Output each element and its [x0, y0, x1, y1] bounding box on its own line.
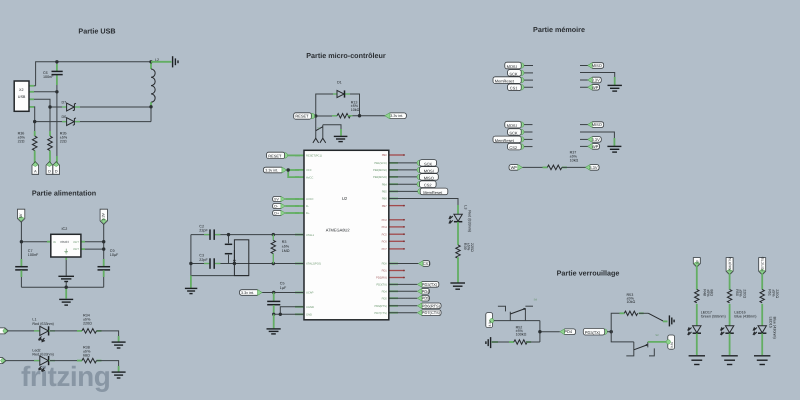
svg-text:RESET(PC1): RESET(PC1): [306, 155, 322, 158]
svg-text:SCK: SCK: [509, 130, 517, 135]
wire X2 pin2 to C6 vertical: [29, 91, 57, 93]
group 2 left stubs: [524, 125, 533, 147]
wire S1 to ground: [340, 129, 342, 136]
wire VCC/AVCC: [287, 170, 299, 177]
wire ground to R52: [492, 341, 498, 343]
label 3.3v int (VCC): [263, 167, 285, 173]
junction node OUT2: [102, 247, 105, 250]
label D-: [273, 204, 284, 209]
label CS1: [419, 261, 430, 267]
svg-text:3.3V: 3.3V: [589, 165, 597, 170]
label PD3(TX): [418, 282, 439, 288]
svg-text:22Ω: 22Ω: [18, 140, 25, 144]
svg-text:100kΩ: 100kΩ: [516, 333, 527, 337]
ground R53 (pointing left): [668, 315, 670, 326]
wire rail to R35: [49, 107, 51, 136]
svg-text:±5%: ±5%: [282, 244, 290, 248]
connector pin A: [34, 156, 36, 163]
wire IC2 GND down: [65, 257, 67, 276]
label RESET (reset circuit): [309, 113, 315, 119]
diode D6: [62, 121, 67, 123]
label 3.3v rotated (S4): [486, 313, 493, 328]
red stub PD2: [389, 277, 405, 279]
wire mem2 ground row: [580, 132, 614, 145]
svg-text:UVCC: UVCC: [306, 198, 314, 201]
junction node XTAL2 R3: [272, 262, 275, 265]
label PD3(TX) (verrouillage): [602, 329, 608, 335]
wire X2 pin1 to top rail: [29, 85, 36, 87]
red stub PC4: [389, 226, 405, 228]
svg-text:D: D: [48, 169, 51, 173]
svg-text:PD7(CTS): PD7(CTS): [374, 312, 386, 315]
red stub PB0: [389, 154, 405, 156]
label 5V (UVCC): [273, 197, 284, 202]
fritzing watermark: [21, 361, 110, 392]
junction node UGND: [279, 313, 282, 316]
svg-text:3.3V: 3.3V: [592, 78, 600, 83]
wire C7 to bottom: [20, 270, 22, 287]
svg-text:USB: USB: [18, 95, 26, 99]
wire IC2 OUT1: [81, 241, 104, 243]
left pin legs: [295, 155, 304, 314]
label SCK mem2: [518, 129, 524, 135]
ground S1: [334, 135, 348, 137]
svg-text:3.3v int.: 3.3v int.: [390, 114, 403, 118]
svg-text:78M33: 78M33: [60, 240, 70, 244]
svg-text:D-: D-: [306, 205, 309, 208]
label 3.3v rotated (S2): [668, 335, 675, 349]
label MISO mem2: [589, 122, 604, 128]
svg-text:10kΩ: 10kΩ: [627, 300, 636, 304]
wire UGND jog: [280, 307, 304, 315]
wire node to PD4: [540, 331, 560, 333]
wire R52 to node: [526, 341, 540, 343]
wires right pins to labels: [389, 163, 419, 313]
wire R38 to ground: [97, 361, 119, 371]
svg-text:68Ω: 68Ω: [83, 353, 90, 357]
wire R35 to connector: [49, 151, 51, 162]
svg-text:Partie alimentation: Partie alimentation: [32, 189, 96, 198]
wire VBUS rail down: [56, 92, 58, 162]
svg-text:PD7(CTS): PD7(CTS): [422, 310, 441, 315]
wire R51 to LED15: [761, 304, 763, 326]
svg-text:3.3V: 3.3V: [102, 212, 106, 220]
resistor R36: [34, 131, 36, 136]
svg-text:D+: D+: [306, 212, 310, 215]
svg-text:PB4: PB4: [382, 183, 388, 186]
junction node C6 top: [55, 60, 58, 63]
svg-text:PC4: PC4: [382, 226, 388, 229]
wire L2 to ground: [151, 61, 172, 63]
svg-text:±5%: ±5%: [771, 289, 775, 297]
resistor R35: [49, 131, 51, 136]
wire D+: [285, 212, 299, 214]
wire rail ground drop: [190, 276, 192, 288]
svg-text:220Ω: 220Ω: [83, 322, 92, 326]
svg-text:220Ω: 220Ω: [470, 243, 474, 252]
junction node bottom: [65, 286, 68, 289]
wire R36 to connector: [34, 151, 36, 162]
svg-text:PD6(RTS): PD6(RTS): [374, 305, 386, 308]
wire 3.3V rail right: [103, 222, 105, 266]
wire mem1 to ground: [614, 77, 616, 85]
label MemReset: [418, 189, 424, 195]
red stub PC7: [389, 248, 405, 250]
wire rail to IC2 IN: [21, 241, 50, 243]
svg-text:Partie verrouillage: Partie verrouillage: [557, 269, 620, 278]
label PD6(RTS) vertical: [726, 258, 733, 275]
svg-text:WP: WP: [592, 85, 599, 90]
svg-text:SCK: SCK: [424, 161, 432, 166]
wire PD3 node down to S2: [611, 332, 634, 342]
svg-text:PC6: PC6: [382, 241, 388, 244]
wire C6 vertical: [56, 62, 58, 71]
wire R48 to LED17: [696, 304, 698, 326]
wire PD7 to R51: [761, 274, 763, 290]
svg-text:MISO: MISO: [592, 63, 602, 68]
junction node OUT1: [102, 240, 105, 243]
label SCK: [417, 160, 423, 166]
wire L2 bottom link: [150, 107, 152, 122]
wire D-: [285, 205, 299, 207]
left pin names: [306, 155, 322, 317]
svg-text:PB0: PB0: [382, 154, 388, 157]
label MISO mem1: [589, 63, 604, 69]
ground (USB shield, pointing right): [172, 56, 174, 67]
wire 5V rail left: [20, 220, 22, 267]
label 3.3V mem2: [589, 137, 602, 143]
diode D7: [62, 106, 67, 108]
wire reset row to R13: [314, 115, 338, 117]
junction node UCAP: [272, 291, 275, 294]
label SCK mem1: [518, 70, 524, 76]
svg-text:MOSI: MOSI: [424, 168, 434, 173]
svg-text:PD3(TX): PD3(TX): [585, 330, 601, 335]
label MemReset mem1: [518, 77, 524, 83]
ground LED17: [689, 355, 705, 357]
svg-text:UCAP: UCAP: [306, 292, 314, 295]
svg-text:IN: IN: [53, 241, 56, 244]
label MOSI mem2: [518, 122, 524, 128]
svg-text:5V: 5V: [274, 197, 279, 201]
svg-text:PC7: PC7: [382, 248, 388, 251]
wire R13 to 3.3v int: [348, 115, 386, 117]
svg-text:3.3v: 3.3v: [670, 342, 674, 348]
wire L3 to R39: [457, 222, 459, 245]
label MOSI mem1: [518, 63, 524, 69]
svg-text:D: D: [55, 169, 58, 173]
svg-text:22pF: 22pF: [199, 229, 208, 233]
label MemReset mem2: [518, 137, 524, 143]
svg-text:3.3v: 3.3v: [488, 320, 492, 326]
svg-text:CS2: CS2: [424, 183, 432, 188]
red stub PB7: [389, 205, 405, 207]
svg-text:PD4: PD4: [564, 329, 572, 334]
label 5v left edge: [0, 328, 8, 334]
crystal rail left: [191, 235, 249, 276]
svg-text:S4: S4: [534, 299, 538, 302]
wire PD3 node: [607, 331, 611, 333]
label MISO: [417, 174, 423, 180]
svg-text:D7: D7: [62, 101, 67, 105]
svg-text:Partie mémoire: Partie mémoire: [533, 25, 585, 34]
svg-text:D1: D1: [337, 81, 342, 85]
switch S1: [315, 116, 317, 138]
svg-text:220Ω: 220Ω: [775, 289, 779, 298]
LED LED15: [758, 326, 766, 333]
svg-text:10kΩ: 10kΩ: [351, 108, 360, 112]
svg-text:10µF: 10µF: [110, 253, 119, 257]
svg-text:RESET: RESET: [268, 154, 282, 159]
svg-text:C5: C5: [280, 282, 285, 286]
svg-text:5V: 5V: [19, 213, 23, 218]
wire XTAL1 row: [191, 234, 209, 236]
svg-text:PD5: PD5: [382, 297, 388, 300]
wire S4 node down: [539, 321, 541, 342]
svg-text:22pF: 22pF: [199, 258, 208, 262]
LED L3: [457, 205, 459, 214]
svg-text:ATMEGA8U2: ATMEGA8U2: [326, 227, 351, 232]
svg-text:PD3(TX): PD3(TX): [376, 284, 387, 287]
group 2 right stubs: [580, 125, 589, 147]
svg-text:PD1: PD1: [382, 270, 388, 273]
junction node XTAL2 case: [233, 262, 236, 265]
crystal Y1 plates: [228, 235, 230, 244]
svg-text:22Ω: 22Ω: [60, 140, 67, 144]
connector X2 USB: [14, 81, 29, 111]
resistor R51: [760, 289, 764, 302]
svg-text:1µF: 1µF: [280, 286, 287, 290]
svg-text:CS1: CS1: [423, 261, 431, 266]
ground mem2: [607, 145, 621, 147]
svg-text:PD0: PD0: [382, 263, 388, 266]
wire bottom rail: [21, 286, 103, 288]
crystal case: [234, 240, 248, 276]
svg-text:MISO: MISO: [424, 175, 434, 180]
svg-text:VCC: VCC: [306, 169, 312, 172]
wire PD3 node up to R53: [611, 313, 624, 331]
label D+: [273, 211, 284, 216]
wire 3v to Led2: [6, 360, 40, 362]
wire GND row: [274, 313, 304, 315]
group 1 left stubs: [524, 66, 533, 88]
svg-text:10kΩ: 10kΩ: [570, 158, 579, 162]
svg-text:PB6: PB6: [382, 198, 388, 201]
svg-text:Red (633nm): Red (633nm): [467, 210, 471, 232]
svg-text:D+: D+: [274, 211, 279, 215]
ground crystal: [185, 287, 197, 289]
junction node PD4: [538, 330, 541, 333]
resistor R39: [456, 245, 460, 258]
svg-text:RESET: RESET: [295, 113, 309, 118]
label PD4: [418, 289, 429, 295]
ground R52 (pointing left): [490, 337, 492, 348]
svg-text:R51: R51: [768, 289, 772, 296]
svg-text:100nF: 100nF: [43, 75, 54, 79]
svg-text:D6: D6: [62, 115, 67, 119]
wire mem2 to ground: [613, 138, 615, 146]
svg-text:SCK: SCK: [509, 71, 517, 76]
svg-text:PC5: PC5: [382, 233, 388, 236]
group 1 right stubs: [580, 66, 589, 88]
LED LED16: [725, 326, 733, 333]
label CS2: [417, 181, 423, 187]
svg-text:Red (633nm): Red (633nm): [32, 322, 54, 326]
svg-text:±5%: ±5%: [706, 289, 710, 297]
svg-text:1MΩ: 1MΩ: [282, 249, 290, 253]
svg-text:±5%: ±5%: [467, 243, 471, 251]
svg-text:Blue (430nm): Blue (430nm): [734, 315, 756, 319]
label WP mem2: [589, 144, 600, 150]
svg-text:PC2: PC2: [382, 219, 388, 222]
svg-text:CS2: CS2: [509, 145, 517, 150]
svg-text:PB1(SCK): PB1(SCK): [374, 162, 387, 165]
svg-text:PD4: PD4: [382, 291, 388, 294]
wire bottom rail to lower ground: [65, 287, 67, 298]
ground LED15: [754, 355, 770, 357]
svg-text:L1: L1: [32, 317, 36, 321]
svg-text:MOSI: MOSI: [507, 123, 517, 128]
svg-text:PB3(MISO): PB3(MISO): [373, 176, 387, 179]
wire UCAP row: [262, 292, 304, 294]
resistor R50: [727, 289, 731, 302]
wire Led2 to R38: [50, 360, 82, 362]
wire PB6 to L3: [389, 199, 458, 208]
label 3.3V pullup: [586, 165, 599, 171]
svg-text:LED17: LED17: [701, 310, 712, 314]
junction node D7: [48, 105, 51, 108]
svg-text:Red (633nm): Red (633nm): [32, 352, 54, 356]
svg-text:OUT: OUT: [73, 241, 79, 244]
wire 3.3v to S4 node: [494, 320, 540, 322]
connector 5V top: [18, 209, 25, 222]
wire XTAL2 row: [191, 263, 209, 265]
label PD4 (verrouillage): [561, 329, 576, 335]
right pin names red: [376, 154, 387, 280]
svg-text:±5%: ±5%: [739, 289, 743, 297]
ground L3: [450, 282, 465, 284]
svg-text:WP: WP: [511, 165, 518, 170]
wire R37 to 3.3V: [562, 166, 586, 168]
svg-text:LED16: LED16: [734, 310, 745, 314]
svg-text:GND: GND: [306, 314, 312, 317]
junction node reset: [314, 114, 317, 117]
red stub PC2: [389, 219, 405, 221]
wire GND to ground: [273, 314, 275, 328]
label WP mem1: [589, 84, 600, 90]
svg-text:XTAL1: XTAL1: [306, 234, 315, 237]
wire 5V to R48: [696, 266, 698, 290]
svg-text:R3: R3: [282, 240, 287, 244]
wire L1 to R34: [50, 330, 82, 332]
wire D7 row: [50, 106, 67, 108]
svg-text:X2: X2: [19, 88, 24, 92]
wire X2 pin3 corner down: [29, 99, 50, 107]
label PD7(CTS): [418, 310, 441, 316]
svg-text:L3: L3: [464, 205, 468, 209]
junction node pin2: [55, 90, 58, 93]
wire D6 row: [35, 121, 67, 123]
svg-text:Green (555nm): Green (555nm): [701, 315, 726, 319]
label 5V vertical: [693, 258, 700, 268]
svg-text:AVCC: AVCC: [306, 176, 313, 179]
junction node XTAL1 crystal: [227, 233, 230, 236]
wire mem1 ground row: [580, 73, 615, 85]
wire RESET to IC: [287, 154, 300, 156]
connector 3.3V top: [100, 209, 107, 224]
wire reset node vertical: [316, 94, 333, 116]
capacitor C6: [56, 64, 58, 71]
label CS2 mem2: [518, 144, 524, 150]
svg-text:PD5: PD5: [422, 296, 430, 301]
svg-text:CS1: CS1: [510, 86, 518, 91]
label RESET (IC left): [282, 153, 288, 159]
svg-text:IC2: IC2: [62, 227, 68, 231]
wire top rail: [36, 62, 151, 86]
svg-text:3.3V: 3.3V: [592, 137, 600, 142]
wire rail to R36: [34, 122, 36, 136]
wire 5V to UVCC: [285, 198, 299, 200]
wire S2 to 3.3v: [648, 341, 667, 343]
wire X2 pin4 corner down: [29, 107, 35, 122]
junction node XTAL1 R3: [272, 233, 275, 236]
red stub PC5: [389, 233, 405, 235]
svg-text:MOSI: MOSI: [507, 64, 517, 69]
svg-text:MemReset: MemReset: [495, 138, 515, 143]
svg-text:XTAL2(PC0): XTAL2(PC0): [306, 263, 321, 266]
connector pin D+: [56, 156, 58, 163]
ground C5: [267, 328, 281, 330]
ground LED16: [721, 355, 737, 357]
wire R39 to ground: [457, 257, 459, 282]
wire LED17 to ground: [696, 333, 698, 355]
junction node rail XTAL2: [189, 262, 192, 265]
svg-text:220Ω: 220Ω: [742, 289, 746, 298]
svg-text:MemReset: MemReset: [423, 190, 443, 195]
svg-text:S1: S1: [317, 127, 321, 130]
svg-text:3.3v int.: 3.3v int.: [241, 291, 254, 295]
svg-text:LED15: LED15: [769, 317, 773, 328]
wire PD6 to R50: [729, 274, 731, 290]
svg-text:OUT: OUT: [73, 248, 79, 251]
label 3.3v int (reset circuit): [386, 113, 407, 119]
label PD5: [418, 295, 429, 301]
LED LED17: [693, 326, 701, 333]
svg-text:PD4: PD4: [422, 289, 430, 294]
label 3v left edge: [0, 358, 6, 364]
red stub PC6: [389, 240, 405, 242]
svg-text:Partie micro-contrôleur: Partie micro-contrôleur: [306, 51, 386, 60]
svg-text:Partie USB: Partie USB: [78, 27, 115, 36]
wire LED15 to ground: [761, 333, 763, 355]
svg-text:68Ω: 68Ω: [710, 289, 714, 296]
junction node GND: [272, 313, 275, 316]
svg-text:R48: R48: [702, 289, 706, 296]
right pin names green: [373, 162, 387, 315]
svg-text:PD6(RTS): PD6(RTS): [422, 303, 441, 308]
svg-text:PD3(TX): PD3(TX): [422, 282, 438, 287]
label PD7(CTS) vertical: [759, 258, 766, 275]
label WP pullup: [509, 165, 521, 171]
label CS1 mem1: [518, 84, 524, 90]
wire 5v to L1: [8, 330, 40, 332]
resistor R48: [695, 289, 699, 302]
label PD6(RTS): [418, 303, 441, 309]
IC body U2: [304, 150, 389, 319]
ground Led2: [118, 366, 120, 372]
svg-text:Blue (430nm): Blue (430nm): [772, 317, 776, 339]
wire LED16 to ground: [729, 333, 731, 355]
